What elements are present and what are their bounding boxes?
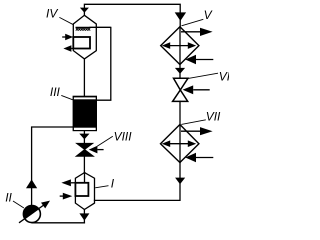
wire top line from vessel IV top to exchanger V: [84, 4, 180, 27]
wire vessel I bottom to bottom run: [83, 210, 85, 223]
vessel I (evaporator/absorber): [60, 173, 95, 210]
wire through exchanger V down to valve VI: [179, 27, 181, 78]
svg-text:VI: VI: [219, 69, 229, 83]
flow arrow III to VIII: [79, 134, 89, 140]
wire bypass from IV mesh outlet down to bed III right side: [90, 27, 111, 100]
arrow into IV coil: [62, 36, 65, 38]
wire valve VI through exchanger VII: [179, 101, 181, 162]
svg-text:III: III: [50, 85, 61, 99]
svg-text:VIII: VIII: [114, 130, 133, 144]
sorption bed III: [73, 96, 97, 132]
arrow into VI from right: [193, 89, 210, 91]
leader III: [61, 95, 73, 99]
arrow out of IV coil: [71, 48, 73, 50]
flow arrow below vessel I: [79, 213, 89, 220]
valve VI (expansion valve): [173, 78, 188, 101]
wire bottom run to pump II: [32, 222, 84, 224]
arrow into VIII from right: [97, 149, 103, 151]
svg-text:IV: IV: [46, 6, 58, 20]
exchanger V (condenser): [161, 27, 214, 65]
flow arrow VII down to vessel I: [175, 178, 185, 185]
leader I: [95, 186, 108, 188]
flow arrow into IV top: [80, 8, 89, 13]
svg-text:II: II: [5, 191, 12, 205]
arrow out of I coil (top left): [71, 182, 76, 184]
svg-text:VII: VII: [206, 110, 221, 124]
VII heat in arrow bottom right: [196, 157, 213, 159]
VII internal double arrow: [168, 143, 190, 145]
vessel IV (desorber with demister): [62, 8, 111, 59]
leader IV: [59, 17, 73, 24]
leader II: [13, 201, 24, 208]
wire VII bottom down and left into vessel I: [95, 163, 181, 201]
leader VI: [188, 73, 218, 78]
flow arrow into V: [175, 12, 186, 21]
leader VII: [181, 120, 206, 125]
coil in I: [75, 183, 88, 196]
leader VIII: [97, 136, 113, 146]
V internal double arrow: [168, 45, 190, 47]
wire left trunk pump II up to bed III: [32, 127, 73, 206]
exchanger VII (evaporator): [161, 125, 214, 163]
leader V: [182, 19, 204, 26]
wire valve VIII to vessel I top: [83, 156, 85, 172]
pump II: [19, 201, 50, 223]
V heat in arrow bottom right: [196, 59, 213, 61]
coil in IV: [73, 37, 90, 49]
svg-text:V: V: [204, 8, 213, 22]
valve VIII (filled): [76, 143, 94, 156]
flow arrow up on left trunk: [26, 179, 37, 188]
flow arrow into VI: [175, 68, 185, 74]
VII heat out arrow top right: [181, 130, 201, 132]
wire IV bottom to III top: [83, 59, 85, 96]
arrow into I coil (bottom left): [60, 195, 64, 197]
wire III bottom to valve VIII: [83, 131, 85, 143]
wire vessel I internal dip tube: [84, 173, 86, 183]
demister mesh pad in IV: [76, 27, 111, 30]
V heat out arrow top right: [181, 31, 201, 33]
